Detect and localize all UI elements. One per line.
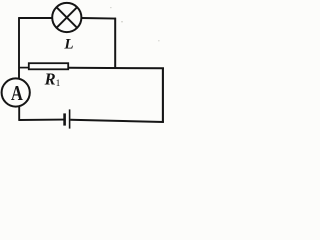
svg-text:1: 1 — [56, 79, 61, 89]
scan speck 2 — [158, 40, 160, 41]
wire middle vertical (lamp branch down) — [114, 18, 116, 68]
wire left vertical — [18, 17, 20, 78]
wire battery to bottom-right corner — [70, 120, 164, 122]
resistor R1 — [29, 63, 68, 69]
svg-text:A: A — [11, 82, 23, 106]
wire to resistor — [19, 67, 29, 69]
scan speck 3 — [110, 7, 112, 8]
wire ammeter bottom stub — [18, 107, 20, 121]
battery BT1 — [65, 109, 70, 128]
wire right vertical — [162, 68, 164, 123]
svg-text:L: L — [63, 37, 73, 53]
lamp U1 — [52, 3, 81, 32]
wire top-left from corner to lamp — [19, 17, 53, 19]
wire top-right from lamp to corner — [82, 17, 117, 20]
wire bottom-left to battery — [19, 119, 64, 121]
svg-text:R: R — [44, 70, 56, 89]
scan speck 1 — [121, 21, 123, 22]
wire resistor to right corner — [68, 67, 164, 70]
ammeter A1 — [2, 78, 30, 106]
